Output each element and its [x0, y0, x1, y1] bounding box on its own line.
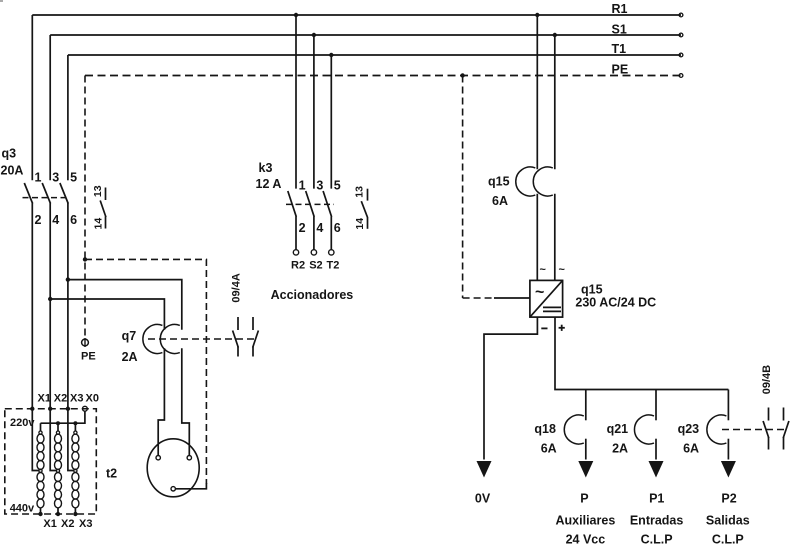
svg-text:5: 5	[334, 179, 341, 193]
svg-text:6: 6	[70, 213, 77, 227]
svg-text:Salidas: Salidas	[706, 514, 750, 528]
svg-text:6A: 6A	[541, 442, 557, 456]
svg-text:X3: X3	[70, 393, 83, 405]
svg-text:09/4B: 09/4B	[761, 365, 773, 394]
svg-text:C.L.P: C.L.P	[712, 533, 744, 547]
svg-text:q7: q7	[122, 329, 137, 343]
svg-text:13: 13	[354, 186, 366, 198]
svg-text:T2: T2	[327, 260, 340, 272]
svg-text:~: ~	[540, 264, 547, 276]
svg-text:20A: 20A	[1, 164, 24, 178]
svg-text:1: 1	[299, 179, 306, 193]
svg-text:2: 2	[299, 221, 306, 235]
svg-text:q18: q18	[534, 422, 556, 436]
svg-text:220v: 220v	[10, 417, 35, 429]
svg-text:13: 13	[92, 185, 104, 197]
svg-text:3: 3	[52, 171, 59, 185]
svg-text:Entradas: Entradas	[630, 514, 684, 528]
svg-text:q3: q3	[2, 147, 17, 161]
svg-text:PE: PE	[81, 351, 96, 363]
svg-text:2: 2	[35, 213, 42, 227]
svg-text:t2: t2	[106, 467, 117, 481]
svg-text:PE: PE	[612, 63, 629, 77]
svg-text:T1: T1	[612, 42, 627, 56]
svg-text:2A: 2A	[122, 350, 138, 364]
svg-text:4: 4	[52, 213, 59, 227]
svg-text:12 A: 12 A	[256, 177, 282, 191]
svg-text:14: 14	[354, 218, 366, 230]
svg-text:Accionadores: Accionadores	[271, 288, 354, 302]
svg-text:14: 14	[93, 218, 105, 230]
svg-text:6A: 6A	[492, 194, 508, 208]
svg-text:0V: 0V	[475, 492, 491, 506]
svg-text:4: 4	[316, 221, 323, 235]
svg-text:3: 3	[316, 179, 323, 193]
svg-text:P2: P2	[721, 492, 736, 506]
svg-text:~: ~	[535, 284, 544, 301]
svg-text:230 AC/24 DC: 230 AC/24 DC	[575, 296, 656, 310]
svg-text:24 Vcc: 24 Vcc	[566, 533, 606, 547]
svg-text:1: 1	[35, 171, 42, 185]
svg-text:k3: k3	[259, 161, 273, 175]
svg-text:C.L.P: C.L.P	[641, 533, 673, 547]
svg-text:6A: 6A	[683, 442, 699, 456]
svg-text:6: 6	[334, 221, 341, 235]
svg-text:5: 5	[70, 171, 77, 185]
svg-text:X2: X2	[61, 518, 74, 530]
svg-text:X1: X1	[38, 393, 51, 405]
svg-text:S1: S1	[612, 23, 627, 37]
svg-text:X1: X1	[43, 518, 56, 530]
svg-text:q15: q15	[488, 175, 510, 189]
svg-text:P: P	[580, 492, 588, 506]
svg-text:X3: X3	[79, 518, 92, 530]
svg-text:X2: X2	[54, 393, 67, 405]
svg-text:R1: R1	[612, 2, 628, 16]
svg-text:q15: q15	[581, 283, 603, 297]
svg-text:2A: 2A	[612, 442, 628, 456]
svg-text:440v: 440v	[10, 503, 35, 515]
svg-text:q23: q23	[678, 422, 700, 436]
svg-text:q21: q21	[607, 422, 629, 436]
svg-text:09/4A: 09/4A	[231, 273, 243, 302]
svg-text:P1: P1	[649, 492, 664, 506]
svg-text:~: ~	[559, 264, 566, 276]
svg-text:R2: R2	[291, 260, 305, 272]
svg-text:S2: S2	[309, 260, 322, 272]
svg-text:Auxiliares: Auxiliares	[556, 514, 616, 528]
svg-text:X0: X0	[86, 393, 99, 405]
